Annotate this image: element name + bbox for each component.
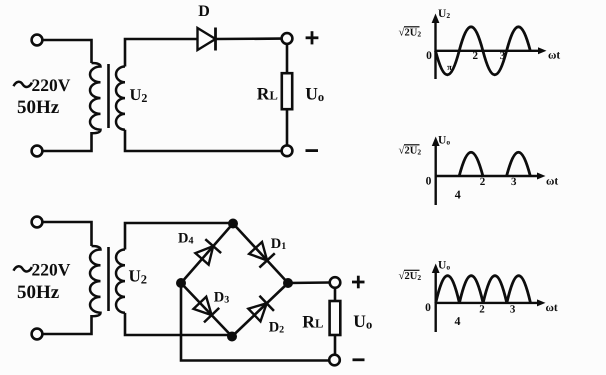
wire: T1 secondary top to diode D anode (125, 39, 198, 67)
resistor RL (top circuit) (282, 73, 292, 109)
label − (top circuit) (306, 149, 319, 152)
svg-text:2: 2 (480, 176, 486, 188)
wire: lower input terminal to T1 primary bottom (43, 132, 92, 151)
chart2 label sqrt(2)U2 (399, 145, 422, 157)
chart1 horizontal axis with arrow (436, 47, 547, 54)
input terminal (bottom circuit, lower) (32, 329, 43, 340)
chart2 Uo half-wave curve (459, 152, 530, 176)
diode D1 (248, 241, 275, 268)
diode D3 (192, 296, 219, 323)
wire: + terminal to RL top (286, 44, 289, 73)
diode D4 (194, 239, 221, 266)
node: bridge right junction (283, 278, 293, 288)
chart3 label sqrt(2)U2 (399, 270, 422, 282)
output terminal − (top circuit) (282, 145, 293, 156)
svg-text:220V: 220V (32, 75, 71, 95)
wire: upper input terminal to T1 primary top (43, 40, 92, 63)
chart1 vertical axis with arrow (432, 14, 440, 80)
wire: diode D cathode to + output terminal (216, 37, 282, 40)
node: bridge top junction (228, 219, 238, 229)
transformer T2 core (107, 247, 110, 311)
wire: lower input terminal to T2 primary bottom (43, 315, 92, 334)
wire: upper input terminal to T2 primary top (43, 222, 92, 246)
svg-text:4: 4 (455, 314, 461, 328)
transformer T2 secondary winding (116, 250, 125, 313)
svg-text:0: 0 (426, 50, 432, 62)
diode D2 (247, 296, 274, 323)
transformer T1 secondary winding (116, 67, 125, 130)
wire: RL bottom to − output terminal (286, 109, 289, 145)
wire: T2 secondary top to bridge top node (125, 223, 233, 250)
label ~220V 50Hz (top circuit) (14, 75, 71, 118)
chart1 U2 sine curve (436, 27, 531, 75)
chart3 vertical axis with arrow (432, 264, 440, 333)
svg-text:220V: 220V (32, 259, 71, 279)
label − (bottom circuit) (353, 358, 365, 361)
label ~220V 50Hz (bottom circuit) (14, 259, 71, 303)
svg-text:50Hz: 50Hz (17, 282, 60, 303)
svg-text:π: π (447, 62, 452, 72)
chart2 vertical axis with arrow (432, 137, 440, 206)
wire: T2 secondary bottom to bridge bottom node (125, 313, 232, 335)
svg-text:50Hz: 50Hz (17, 97, 60, 118)
wire: bridge left node down and right to − terminal (181, 283, 329, 361)
input terminal (top circuit, lower) (32, 146, 43, 157)
chart3 Uo full-wave curve (436, 276, 531, 303)
resistor RL (bottom circuit) (330, 301, 341, 335)
chart3 horizontal axis with arrow (436, 299, 546, 306)
label + (top circuit) (306, 31, 319, 44)
wire: RL bottom to − output terminal (bottom circuit) (334, 335, 337, 355)
label + (bottom circuit) (352, 276, 365, 289)
wire: bridge right node to + output terminal (288, 281, 330, 284)
input terminal (top circuit, upper) (32, 35, 43, 46)
svg-text:D: D (198, 3, 210, 20)
svg-text:4: 4 (455, 188, 461, 202)
transformer T1 primary winding (90, 63, 100, 133)
wire: T1 secondary bottom to − terminal (125, 130, 282, 151)
svg-text:ωt: ωt (548, 50, 560, 62)
svg-text:3: 3 (511, 176, 517, 188)
input terminal (bottom circuit, upper) (32, 217, 43, 228)
transformer T1 core (107, 64, 110, 128)
wire: bridge edge top-to-right (carries D1) (233, 224, 288, 284)
chart2 horizontal axis with arrow (436, 173, 546, 180)
chart1 label sqrt(2)U2 (399, 27, 422, 39)
svg-text:ωt: ωt (546, 176, 558, 188)
svg-text:ωt: ωt (546, 302, 558, 314)
node: bridge left junction (176, 278, 186, 288)
node: bridge bottom junction (227, 332, 237, 342)
svg-text:0: 0 (426, 175, 432, 187)
svg-text:3: 3 (510, 304, 516, 316)
wire: bridge edge left-to-bottom (carries D3) (181, 283, 232, 337)
output terminal + (top circuit) (282, 33, 293, 44)
output terminal − (bottom circuit) (329, 355, 340, 366)
transformer T2 primary winding (90, 246, 101, 316)
svg-text:0: 0 (425, 302, 431, 314)
wire: + terminal to RL top (bottom circuit) (334, 288, 337, 301)
wire: bridge edge left-to-top (carries D4) (181, 224, 233, 284)
svg-text:3: 3 (500, 50, 506, 62)
wire: bridge edge bottom-to-right (carries D2) (232, 283, 288, 337)
svg-text:2: 2 (479, 304, 485, 316)
svg-text:2: 2 (473, 50, 479, 62)
diode D (198, 28, 216, 51)
output terminal + (bottom circuit) (330, 277, 341, 288)
